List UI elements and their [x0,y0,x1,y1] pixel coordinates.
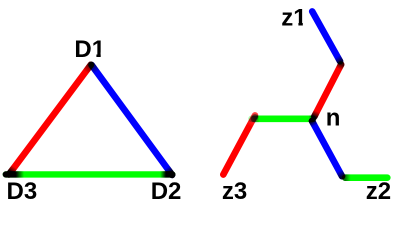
joint shade at z2 elbow on green6 [345,174,350,181]
svg-text:D1: D1 [74,36,105,63]
wire: triangle edge D1-D3 (red) [9,65,91,175]
joint shade at elbow on red2 [339,65,341,70]
wire: node n to z2 elbow (blue) [312,121,342,176]
wire: z1 branch (blue) [312,11,340,61]
wire: joint to node n (red) [314,65,341,117]
joint shade at z3 elbow on red4 [253,117,255,122]
joint shade at D2 on blue [167,168,172,175]
svg-text:z1: z1 [281,5,306,32]
svg-text:z2: z2 [366,178,391,205]
joint shade at D3 on green [6,171,24,177]
mask foot serif of D1 digit [93,53,97,59]
wire: triangle edge D3-D2 (green) [6,171,173,177]
joint shade at D3 on red [9,167,14,174]
joint shade at node n on red2 [314,111,317,116]
wire: z2 horizontal (green) [345,174,387,181]
wire: node n horizontal (green) [252,116,313,123]
svg-text:z3: z3 [222,178,247,205]
joint shade at node n on green [309,116,313,123]
svg-text:D3: D3 [7,178,38,205]
joint shade at node n on blue5 [312,121,315,126]
wire: z3 branch (red) [223,115,255,174]
joint shade at apex D1 on red [86,65,91,72]
joint shade at elbow on blue1 [337,56,340,61]
joint shade at z2 elbow on blue5 [339,171,342,176]
mask foot serif of z1 digit [294,21,299,27]
svg-text:D2: D2 [151,178,182,205]
joint shade at D2 on green [160,171,172,177]
svg-text:n: n [326,105,341,132]
joint shade at z3 elbow on green [254,116,260,123]
joint shade at apex D1 on blue [92,65,97,72]
wire: triangle edge D1-D2 (blue) [92,65,173,175]
